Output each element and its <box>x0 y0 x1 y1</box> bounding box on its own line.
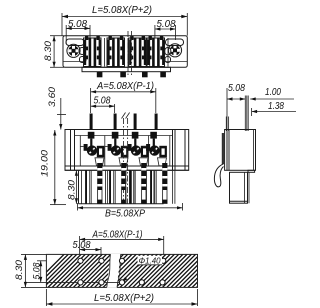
break band <box>107 254 121 288</box>
side view lower body <box>230 172 250 203</box>
front view break lines <box>123 118 125 204</box>
top view pole blocks <box>84 36 169 77</box>
svg-text:8.30: 8.30 <box>67 180 77 200</box>
dimension L top: L=5.08X(P+2) <box>62 5 187 36</box>
top view left mounting screw <box>67 44 80 57</box>
svg-text:Φ1.40: Φ1.40 <box>139 256 161 266</box>
dimension 5.08 front <box>91 96 115 114</box>
svg-text:1.38: 1.38 <box>268 101 284 112</box>
bottom view row2 center line <box>26 281 122 283</box>
dimension B bottom of front: B=5.08XP <box>78 203 183 220</box>
svg-text:L=5.08X(P+2): L=5.08X(P+2) <box>94 293 154 304</box>
svg-text:8.30: 8.30 <box>14 260 24 280</box>
dimension 8.30 bottom view left <box>14 254 47 287</box>
side view upper body <box>222 130 255 173</box>
top view right small ovals <box>165 48 171 56</box>
svg-text:5.08: 5.08 <box>94 96 111 107</box>
bottom view holes row2 <box>78 280 165 285</box>
top view right mounting screw <box>168 44 181 57</box>
side view dimension 1.38 <box>252 101 296 116</box>
dimension 5.08 top-left <box>66 19 90 44</box>
front view pole cells (entry square, screw, funnel) <box>81 132 105 166</box>
svg-text:L=5.08X(P+2): L=5.08X(P+2) <box>92 5 152 16</box>
side view dimension 1.00 <box>250 87 294 101</box>
dimension 5.08 bottom view left <box>32 261 47 283</box>
bottom view hole label PHI 1.40 <box>124 256 163 282</box>
svg-text:A=5.08X(P-1): A=5.08X(P-1) <box>92 229 143 240</box>
svg-text:B=5.08XP: B=5.08XP <box>105 209 145 220</box>
svg-text:1.00: 1.00 <box>265 87 281 98</box>
top view body outline <box>63 36 187 72</box>
front view legs block <box>65 163 189 204</box>
dimension 8.30 top view left <box>43 36 64 68</box>
svg-text:8.30: 8.30 <box>43 41 53 61</box>
dimension 5.08 top-right <box>155 19 176 40</box>
top view break lines <box>127 31 129 75</box>
bottom view holes row1 <box>78 258 166 263</box>
dimension A bottom view <box>80 229 164 258</box>
dimension A front: A=5.08X(P-1) <box>91 81 156 113</box>
top view right slot <box>166 39 184 46</box>
dimension 3.60 front left <box>47 87 66 130</box>
dimension 19.00 front left <box>40 130 67 205</box>
svg-text:5.08: 5.08 <box>228 83 245 94</box>
dimension 5.08 bottom view top <box>73 240 102 258</box>
svg-text:A=5.08X(P-1): A=5.08X(P-1) <box>96 81 154 92</box>
side view pins <box>226 96 248 132</box>
side view dimension 5.08 <box>227 83 245 131</box>
top view left slot <box>66 39 84 46</box>
bottom view PCB strip <box>30 253 277 288</box>
front view pins above body <box>90 114 158 131</box>
side view latch lever <box>214 164 223 187</box>
top view left small ovals <box>79 48 86 55</box>
dimension L bottom: L=5.08X(P+2) <box>46 289 197 306</box>
svg-text:19.00: 19.00 <box>40 150 50 177</box>
svg-text:3.60: 3.60 <box>47 87 57 107</box>
dimension 8.30 front legs <box>67 170 79 204</box>
front view body <box>65 130 189 171</box>
